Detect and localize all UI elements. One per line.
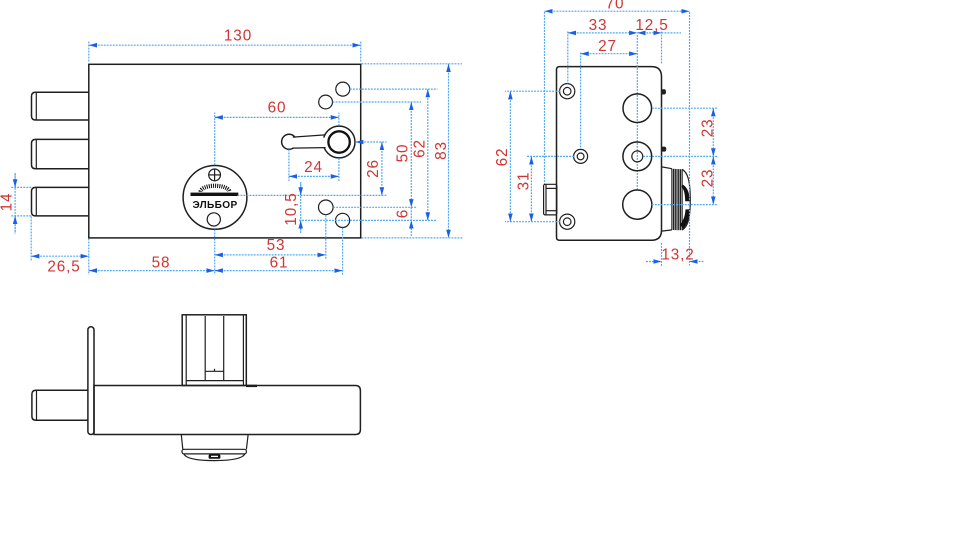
edge bump lower — [661, 147, 666, 152]
dim 12,5 line — [637, 32, 661, 34]
dim 60 line — [215, 116, 339, 118]
dim 23 upper line — [712, 108, 714, 156]
lever knob — [282, 134, 297, 149]
ext hole-b down — [342, 228, 344, 275]
dim 27 ext left — [580, 53, 582, 150]
ext big hole bottom right — [652, 204, 718, 206]
ext big hole middle right — [643, 155, 717, 157]
dim 31 line — [530, 156, 532, 221]
dim 10,5 lower arrow — [300, 220, 302, 233]
dim 53 line — [215, 254, 326, 256]
svg-text:58: 58 — [152, 255, 171, 272]
bottom view body — [94, 386, 360, 435]
svg-text:53: 53 — [267, 237, 286, 254]
dim 12,5 tail — [662, 32, 682, 34]
dim 6 lower outside arrow — [410, 220, 412, 236]
bolt 1 — [32, 92, 89, 120]
dim 60 extension keyhole top — [214, 113, 216, 165]
edge bump upper — [661, 89, 666, 94]
ext screw middle left — [526, 155, 574, 157]
svg-text:33: 33 — [589, 17, 608, 34]
svg-text:12,5: 12,5 — [635, 17, 668, 34]
big hole middle (side) — [623, 142, 652, 171]
dim 24 extension knob bottom — [288, 150, 290, 182]
svg-text:31: 31 — [515, 172, 532, 191]
ext screw bottom-left left — [505, 221, 560, 223]
lever follower ring (outer) — [323, 126, 355, 158]
dim 70 line — [545, 10, 690, 12]
side body plate — [557, 67, 662, 241]
screw hole top-right b — [319, 95, 333, 109]
dim 62 front line — [427, 89, 429, 220]
svg-text:62: 62 — [494, 148, 511, 167]
dim 12,5 ext right — [661, 32, 663, 65]
centerline hole bottom a — [333, 206, 416, 208]
turn knob below — [181, 435, 248, 461]
svg-text:ЭЛЬБОР: ЭЛЬБОР — [192, 200, 237, 211]
dim 13,2 right arrow — [690, 261, 704, 263]
dim 130 extension right — [360, 42, 362, 62]
screw hole bottom a — [319, 200, 334, 215]
centerline hole top b — [333, 101, 421, 103]
svg-text:23: 23 — [700, 118, 717, 137]
dim 61 line — [215, 270, 343, 272]
centerline hole top a — [350, 88, 438, 90]
escutcheon screw (phillips) — [208, 169, 221, 182]
escutcheon lower hole — [207, 213, 220, 226]
svg-text:61: 61 — [270, 255, 289, 272]
dim 10,5 vertical line — [300, 184, 302, 231]
cylinder housing — [182, 315, 246, 386]
dim 33 ext left — [567, 32, 569, 84]
dim 13,2 left arrow — [646, 261, 662, 263]
svg-text:26,5: 26,5 — [47, 259, 80, 276]
dim 10,5 upper arrow — [300, 182, 302, 195]
svg-text:14: 14 — [0, 193, 16, 212]
svg-text:23: 23 — [700, 169, 717, 188]
dim 6 gap segment — [410, 207, 412, 220]
centerline through big holes — [636, 35, 638, 191]
svg-text:27: 27 — [598, 38, 617, 55]
ring inner circle — [328, 131, 349, 152]
dim 26 line (ring to keyhole) — [381, 142, 383, 195]
dim 50+6 vertical line — [410, 102, 412, 207]
latch protrusion left — [544, 184, 557, 215]
big hole top (side) — [623, 94, 652, 123]
screw hole bottom-left (side) — [560, 214, 575, 229]
svg-text:6: 6 — [394, 209, 411, 218]
svg-text:62: 62 — [412, 139, 429, 158]
dim 23 lower line — [712, 156, 714, 204]
ext keyhole center down — [214, 230, 216, 275]
centerline keyhole right — [238, 194, 388, 196]
dim 33 line — [568, 32, 638, 34]
svg-text:10,5: 10,5 — [283, 192, 300, 225]
dim 70 ext left — [544, 12, 546, 184]
dim 62 side line — [509, 91, 511, 222]
dim 58 line — [89, 270, 215, 272]
dim 130 line — [89, 44, 361, 46]
dim 14 ext bottom — [11, 215, 32, 217]
dim 130 extension left — [88, 42, 90, 62]
ext bolt3 left down — [30, 217, 32, 261]
screw hole top-left (side) — [560, 84, 575, 99]
centerline hole bottom b — [299, 219, 437, 221]
logo bar — [191, 193, 239, 196]
svg-text:130: 130 — [224, 28, 252, 45]
screw hole bottom b — [336, 213, 350, 227]
lever bar — [290, 135, 327, 148]
ext big hole top right — [652, 107, 718, 109]
dim 70 ext right — [689, 12, 691, 266]
bottom view bolt — [32, 390, 88, 420]
dim 14 upper arrow — [14, 174, 16, 187]
svg-text:13,2: 13,2 — [661, 247, 694, 264]
screw hole top-right a — [336, 82, 350, 96]
svg-text:83: 83 — [433, 141, 450, 160]
dim 14 vertical line — [14, 173, 16, 234]
faceplate strip — [88, 327, 94, 435]
screw hole middle (side) — [574, 149, 588, 163]
housing base thick segment — [246, 385, 257, 387]
body top edge extension right — [362, 63, 463, 65]
keyhole escutcheon circle — [183, 166, 247, 230]
ext hole-a down — [325, 215, 327, 259]
ЭЛЬБОР logo arc (hatched fan) — [201, 186, 230, 192]
dim 14 lower arrow — [14, 216, 16, 233]
bolt 3 — [32, 187, 89, 216]
svg-text:26: 26 — [365, 159, 382, 178]
svg-text:60: 60 — [268, 100, 287, 117]
ext body left down — [88, 239, 90, 275]
dim 24 extension ring bottom — [338, 158, 340, 181]
big hole bottom (side) — [623, 190, 652, 219]
dim 83 line — [448, 64, 450, 238]
dim 27 line — [581, 53, 638, 55]
dim 60 extension ring top — [338, 113, 340, 126]
svg-text:50: 50 — [394, 144, 411, 163]
ext screw top-left left — [505, 90, 560, 92]
svg-text:24: 24 — [304, 159, 323, 176]
dim 14 ext top — [11, 186, 32, 188]
dim 26,5 line — [31, 255, 89, 257]
dim 24 line — [289, 175, 339, 177]
centerline ring right — [355, 141, 386, 143]
armored cylinder cup — [662, 167, 691, 231]
svg-text:70: 70 — [606, 0, 625, 13]
lock body plate — [89, 64, 361, 238]
bolt 2 — [32, 139, 89, 168]
body bottom edge extension right — [362, 237, 464, 239]
dim 13,2 ext left — [661, 243, 663, 267]
